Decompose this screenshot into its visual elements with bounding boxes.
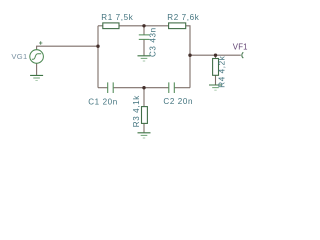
svg-text:C1 20n: C1 20n bbox=[88, 97, 118, 106]
svg-text:C2 20n: C2 20n bbox=[163, 97, 193, 106]
svg-text:R4 4,2k: R4 4,2k bbox=[218, 55, 227, 87]
svg-text:R2 7,6k: R2 7,6k bbox=[167, 13, 199, 22]
svg-text:R1 7,5k: R1 7,5k bbox=[101, 13, 133, 22]
svg-text:R3 4,1k: R3 4,1k bbox=[132, 95, 141, 127]
svg-text:C3 43n: C3 43n bbox=[149, 27, 158, 57]
svg-text:VG1: VG1 bbox=[11, 52, 27, 61]
svg-text:VF1: VF1 bbox=[233, 42, 248, 51]
